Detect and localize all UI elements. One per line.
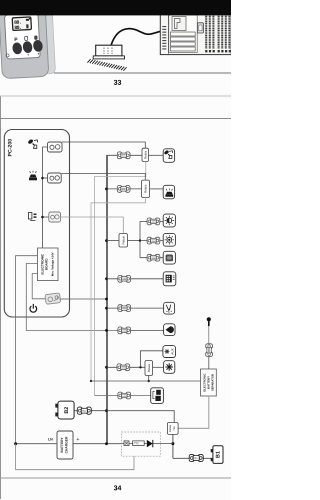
relay R4 bottom stub [148,376,150,382]
power row bus node [105,298,108,301]
inner component box [172,17,186,31]
diode D1 [147,440,153,447]
snowflake box [164,361,175,374]
svg-text:Relais: Relais [121,236,125,245]
buzzer body [96,45,122,56]
left scan edge line [0,96,1,499]
wire to AUX box [141,351,163,368]
svg-text:34: 34 [114,485,122,492]
connector J3 (PC-200 row 3) [49,212,61,222]
row 2 bus wire [107,188,142,190]
bottom return rail [16,444,134,470]
button 1 [11,42,22,55]
svg-text:CHARGER: CHARGER [64,436,68,453]
bus bottom node [105,442,108,445]
lamp B box [163,233,175,246]
display icons right [26,19,29,21]
lamp row B wire [140,240,163,242]
battery charger [57,431,73,459]
separator feed wire [91,380,201,382]
brush-deck icon (PC-200) [29,171,37,181]
key-switch icon (PC-200) [27,139,37,149]
separator output wire (gray) [178,396,209,428]
relay R1 [142,148,149,161]
fuse element [124,441,129,446]
LCD display [12,17,31,31]
device front panel [4,13,40,59]
row 3: PC wire to relay R3 [61,217,124,234]
electronic battery separator box [201,369,217,396]
relay R4 output [153,366,164,368]
keypad box [163,272,176,286]
inner slots [170,32,195,36]
row relay4 wire [107,366,146,368]
row squeegee wire [107,307,164,309]
svg-text:BOARD: BOARD [44,258,48,270]
wire board left B to horn row [26,264,117,331]
row 3 bus node [105,239,108,242]
row 2 bus node [105,188,108,191]
relay R3 output to lamp branch [128,240,141,242]
terminal strip columns block 1 [206,14,213,49]
svg-text:AUX: AUX [170,348,174,354]
wire connector to separator [208,357,210,369]
device body [0,8,49,78]
wire board left A [16,256,38,444]
lamp branch vertical [139,221,141,257]
page background [0,0,231,500]
svg-text:88.: 88. [14,25,21,31]
connector B2 [77,407,91,414]
PC-200 control unit outline [4,130,69,318]
charger right wire [73,443,121,445]
buzzer box with cable [87,29,160,71]
node row2 [41,177,44,180]
button 2 [22,40,33,53]
node at diode output [171,442,174,445]
sense pin ball [207,317,211,343]
svg-text:Relais: Relais [147,363,151,372]
machine box [151,388,164,404]
connector keypad [118,275,131,282]
relay R2 output [150,188,164,190]
svg-text:33: 33 [114,80,122,87]
panel screw [6,54,9,57]
brush deck box [163,185,174,199]
lamp A box [163,214,175,227]
connector row1 [117,152,130,159]
divider line below 33 [0,95,231,97]
buzzer vents [104,48,112,55]
internal bus line of PC-200 [43,147,48,248]
connector lamp A [147,218,160,225]
relais 75A bottom wire [172,434,174,458]
relay R1 output [149,154,164,156]
row keypad bus node [105,277,108,280]
key device box [163,149,174,163]
B2 bus node [105,409,108,412]
connector horn [118,327,131,334]
button label brush [34,35,37,39]
row horn bus node [105,329,108,332]
power key connector [45,293,61,304]
row 1 bus wire [107,154,143,156]
board inner panel [169,15,197,53]
lamp row C wire [140,257,163,259]
row squeegee bus node [105,307,108,310]
connector J1 (PC-200 row 1) [48,142,63,152]
mounting surface hatch [87,59,126,70]
vertical connector [206,344,213,357]
connector lamp B [147,237,160,244]
B1 battery [211,446,223,464]
svg-text:75A: 75A [173,426,176,431]
svg-text:Relais: Relais [143,150,147,159]
relay R2 return wire [91,198,146,382]
electronic board box [38,248,59,281]
power symbol [30,304,37,312]
row 1: PC wire to relay R1 [62,142,146,148]
relay R2 [142,180,150,197]
B2 wire [74,410,106,412]
fuse unit dashed box [121,432,172,456]
mid connector [197,23,203,33]
divider line bottom of page 34 [0,477,231,479]
connector J2 (PC-200 row 2) [48,173,62,183]
B2 battery [55,401,74,419]
connector machine [118,392,131,399]
row 2: PC wire to relay R2 [61,174,145,181]
divider line top of page 34 [0,118,231,120]
button 3 [32,39,43,52]
connector lamp C [147,254,160,261]
connector row2 [117,186,130,193]
relay R4 [145,361,153,376]
device side band [40,11,55,74]
row keypad wire [107,278,164,280]
svg-text:BATTERY: BATTERY [60,437,64,453]
terminal bottom pads [205,50,231,52]
relay R3 [119,234,128,248]
row 3 bus wire [107,240,120,242]
svg-text:Relais: Relais [144,184,148,193]
svg-text:Relais: Relais [169,424,172,432]
svg-text:Min. Voltage +24V: Min. Voltage +24V [51,252,55,276]
connector B1 [189,454,203,461]
beacon box [163,251,175,264]
node before relay4 [139,366,141,368]
button label bottle [25,36,28,40]
row horn wire right [118,329,164,331]
connector relay4 row [117,364,130,371]
wire bus to relais75A [107,411,175,423]
electronic board photo (top right) [160,13,231,55]
svg-text:SEPARATOR: SEPARATOR [210,374,214,391]
section divider line above 33 [54,72,231,74]
top black bar [0,0,231,15]
svg-text:LN: LN [48,437,53,441]
row relay4 bus node [105,366,108,369]
svg-text:B2: B2 [64,407,70,414]
svg-text:PC-200: PC-200 [8,139,14,157]
horn box [164,324,175,336]
svg-text:+: + [76,437,79,443]
wire power to bus [60,298,107,300]
connector squeegee [118,305,131,312]
PTC element [133,441,145,446]
board left label strip [167,14,169,55]
node row3 [41,216,44,219]
svg-text:B1: B1 [216,451,222,458]
handheld control panel device [0,8,56,79]
main battery bus [106,155,108,444]
AUX box [163,346,176,358]
button tick marks [27,54,29,55]
buzzer base plate [93,56,124,59]
relay R1 return wire [95,162,146,396]
wire board bottom C to key connector [32,274,45,299]
svg-text:PTC: PTC [134,442,139,445]
B1 row wire [173,457,211,459]
cable [111,29,161,46]
lamp row A wire [140,220,163,222]
relais 75A [167,423,178,435]
charger left wire [16,443,57,445]
row machine wire [95,395,151,397]
headlight icon (PC-200) [29,213,37,221]
squeegee box [164,302,175,314]
terminal strip columns block 2 [219,14,230,49]
